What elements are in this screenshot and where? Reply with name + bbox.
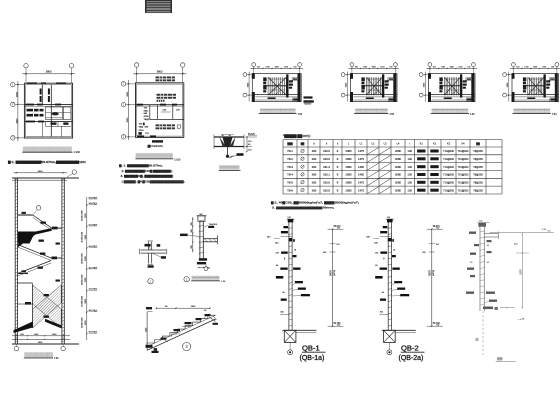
plan 2: 机房顶层配筋平面图 xyxy=(121,63,186,148)
inner bottom wall line xyxy=(429,94,476,96)
svg-text:2: 2 xyxy=(186,277,188,281)
circled dot xyxy=(288,350,293,355)
svg-text:▓: ▓ xyxy=(143,122,145,125)
svg-text:1475: 1475 xyxy=(358,157,364,161)
X flight diagonals xyxy=(444,77,460,95)
svg-text:10: 10 xyxy=(470,262,473,264)
svg-text:100: 100 xyxy=(408,181,413,185)
svg-text:TB-1: TB-1 xyxy=(287,149,293,153)
top elevation line xyxy=(490,231,555,233)
soffit lines xyxy=(147,319,216,350)
arrows xyxy=(446,78,459,80)
bottom labels xyxy=(199,258,207,261)
X flight diagonals xyxy=(528,77,544,95)
right dim line xyxy=(332,229,334,326)
left wall black bottom xyxy=(512,92,515,102)
black diagonal inside hatch xyxy=(45,319,61,328)
center box with oval xyxy=(46,107,63,120)
left wall black top xyxy=(252,73,255,79)
svg-text:2080: 2080 xyxy=(395,173,401,177)
svg-text:▓: 1. ▓▓▓▓▓▓▓▓▓56.670m;: ▓: 1. ▓▓▓▓▓▓▓▓▓56.670m; xyxy=(119,165,163,168)
lower labels xyxy=(466,292,474,294)
left axis bubbles xyxy=(121,82,125,86)
bottom elevation xyxy=(436,325,439,327)
outer walls xyxy=(136,83,184,138)
treads xyxy=(527,77,529,95)
inner bottom wall line xyxy=(512,94,559,96)
left wall black bottom xyxy=(350,92,353,102)
mid-zone horizontal xyxy=(150,118,184,120)
interior vertical wall b (full height) xyxy=(50,85,52,137)
left dim line xyxy=(128,80,130,140)
outer rect xyxy=(429,74,476,102)
lower-zone verticals xyxy=(41,122,43,137)
detail 2 cut symbol circle xyxy=(204,267,208,271)
svg-text:t: t xyxy=(409,143,410,146)
svg-text:120: 120 xyxy=(287,217,291,219)
svg-text:600: 600 xyxy=(514,244,518,246)
hatched flights X zone xyxy=(33,285,62,328)
mid dim ticks xyxy=(429,243,435,245)
svg-text:T10@200: T10@200 xyxy=(458,189,469,192)
svg-text:T8@200: T8@200 xyxy=(209,224,218,226)
left axis bubbles xyxy=(341,73,345,77)
stair plan detail 4: 十八层楼梯详图 xyxy=(503,63,560,102)
wall ties xyxy=(199,220,204,221)
lower-zone center text block xyxy=(156,124,176,126)
left label blobs xyxy=(263,77,266,81)
svg-text:2600: 2600 xyxy=(127,91,129,97)
slab tee xyxy=(203,238,217,240)
svg-text:340: 340 xyxy=(366,237,370,239)
right wall black bar xyxy=(393,73,396,102)
svg-text:3: 3 xyxy=(12,138,14,140)
svg-text:3. ▓▓▓▓▓▓X▓, ▓▓▓▓▓▓▓▓▓▓▓▓;: 3. ▓▓▓▓▓▓X▓, ▓▓▓▓▓▓▓▓▓▓▓▓; xyxy=(121,175,174,178)
svg-text:240: 240 xyxy=(374,242,378,244)
svg-text:8: 8 xyxy=(337,157,339,161)
top cap xyxy=(478,223,486,227)
footing X box xyxy=(284,330,296,342)
detail 2 女儿墙大样 parapet xyxy=(180,214,218,269)
svg-text:260: 260 xyxy=(312,173,317,177)
svg-text:K2: K2 xyxy=(433,143,437,146)
upper annotations xyxy=(283,226,288,228)
top dim line + ticks xyxy=(349,67,400,69)
svg-text:2080: 2080 xyxy=(395,181,401,185)
dim line 3800 xyxy=(133,73,187,75)
svg-text:260: 260 xyxy=(312,149,317,153)
svg-text:1:100: 1:100 xyxy=(174,158,181,161)
mid landing line xyxy=(523,85,543,87)
bottom wall dashes xyxy=(137,135,144,137)
svg-text:1:50: 1:50 xyxy=(390,114,395,116)
svg-text:120: 120 xyxy=(275,252,279,254)
bottom-left node xyxy=(146,345,153,348)
svg-text:1/4: 1/4 xyxy=(165,306,169,308)
svg-text:▓:1. 40▓C30, ▓▓6000(kg/m)²x7,: ▓:1. 40▓C30, ▓▓6000(kg/m)²x7, ▓▓▓▓3500(k… xyxy=(271,200,359,204)
leader + label xyxy=(231,156,238,157)
svg-text:1900: 1900 xyxy=(449,67,453,69)
svg-text:100: 100 xyxy=(408,173,413,177)
end ticks xyxy=(139,249,141,255)
svg-text:11x300=3300: 11x300=3300 xyxy=(81,275,83,286)
X flight diagonals xyxy=(268,77,286,95)
mid annotations xyxy=(380,252,387,254)
plan 1: 机房顶层结构平面图 xyxy=(11,63,75,141)
top axis bubbles xyxy=(350,63,354,67)
svg-text:100: 100 xyxy=(408,188,413,192)
svg-text:T8@250: T8@250 xyxy=(473,174,483,177)
svg-text:K1: K1 xyxy=(420,143,424,146)
detail 3 number bubble xyxy=(183,342,191,350)
left label row 2 xyxy=(27,114,34,117)
svg-text:240: 240 xyxy=(144,112,148,115)
svg-text:8: 8 xyxy=(337,165,339,169)
top-right label box xyxy=(292,78,298,81)
interior vertical wall a xyxy=(41,85,43,106)
svg-text:▓: ▓ xyxy=(392,239,394,242)
svg-text:L2: L2 xyxy=(372,143,375,146)
svg-text:L: L xyxy=(348,143,350,146)
svg-text:60: 60 xyxy=(375,265,378,267)
svg-text:11x300=3300: 11x300=3300 xyxy=(81,318,83,329)
svg-text:8: 8 xyxy=(337,181,339,185)
top-right label box xyxy=(388,78,394,81)
left annotations xyxy=(469,232,476,234)
left axis bubbles xyxy=(11,83,15,87)
lower horizontal wall xyxy=(24,121,72,123)
right dim line xyxy=(431,229,433,326)
right wall xyxy=(61,178,63,345)
svg-text:(QB-1a): (QB-1a) xyxy=(300,355,325,362)
svg-text:1:50: 1:50 xyxy=(470,114,475,116)
axis bubbles top xyxy=(134,63,138,67)
svg-text:5670: 5670 xyxy=(429,270,432,276)
svg-text:240: 240 xyxy=(275,242,279,244)
left label blob xyxy=(180,234,188,237)
axis bubble top-right xyxy=(69,63,73,67)
slab bottom line xyxy=(214,146,244,148)
svg-text:T8@250: T8@250 xyxy=(473,166,483,169)
mid landing line xyxy=(362,85,382,87)
mid annotations xyxy=(281,252,288,254)
svg-text:▓▓: ▓▓ xyxy=(476,337,479,341)
svg-text:1: 1 xyxy=(123,84,125,86)
svg-text:▒▒▒▒▒: ▒▒▒▒▒ xyxy=(24,352,53,359)
outer walls xyxy=(24,83,72,138)
svg-text:50.700: 50.700 xyxy=(433,323,441,325)
top dim xyxy=(156,307,209,309)
hook ball xyxy=(226,155,229,158)
inner bottom wall line xyxy=(351,94,398,96)
svg-text:T10@200: T10@200 xyxy=(443,158,454,161)
left label row 1 xyxy=(27,109,34,112)
svg-text:TB-5: TB-5 xyxy=(287,181,293,185)
top dim line + ticks xyxy=(427,67,478,69)
mid-zone verticals xyxy=(149,105,151,120)
svg-text:1900: 1900 xyxy=(371,67,375,69)
svg-text:1230: 1230 xyxy=(458,67,462,69)
stepped profile xyxy=(147,315,215,346)
svg-text:≈ 4.75: ≈ 4.75 xyxy=(518,318,525,322)
svg-text:T8@200: T8@200 xyxy=(304,104,313,106)
svg-text:2. ▓▓▓▓▓▓▓▓▓120▓(▓▓▓▓▓▓▓▓);: 2. ▓▓▓▓▓▓▓▓▓120▓(▓▓▓▓▓▓▓▓); xyxy=(122,170,173,173)
landing labels xyxy=(22,212,26,214)
svg-text:260: 260 xyxy=(312,188,317,192)
svg-text:▓▓: ▓▓ xyxy=(495,307,499,310)
detail 1 number bubble xyxy=(148,279,153,284)
svg-text:5170: 5170 xyxy=(521,269,523,275)
svg-text:2: 2 xyxy=(12,104,14,106)
right wall black bar xyxy=(298,73,301,102)
svg-text:2080: 2080 xyxy=(395,149,401,153)
center rebar text block upper xyxy=(157,94,177,96)
left axis bubbles xyxy=(419,73,423,77)
top dim line + ticks xyxy=(510,67,560,69)
flight 4 thin xyxy=(18,261,52,274)
parapet cap xyxy=(198,216,205,222)
svg-text:T10@200: T10@200 xyxy=(443,150,454,153)
hook detail 吊钩 slab top line xyxy=(214,134,257,158)
svg-text:56.670: 56.670 xyxy=(334,226,342,228)
detail1 right annotations xyxy=(304,96,313,98)
right dim line xyxy=(521,234,523,308)
svg-text:300: 300 xyxy=(422,252,425,254)
svg-text:T10@200: T10@200 xyxy=(458,166,469,169)
svg-text:3: 3 xyxy=(185,344,188,349)
roof slab xyxy=(12,177,79,179)
bottom elevation xyxy=(337,325,340,327)
svg-text:▒▒▒▒▒▒▒▒▒: ▒▒▒▒▒▒▒▒▒ xyxy=(23,146,72,153)
top axis bubbles xyxy=(252,63,256,67)
svg-text:(5970): (5970) xyxy=(433,270,435,276)
detail 1 wall junction cross xyxy=(140,241,167,268)
bottom-right tag box xyxy=(466,98,473,101)
far-right wall detail (faded) xyxy=(466,221,554,362)
left label blobs xyxy=(523,77,526,81)
detail 2 number bubble xyxy=(184,277,189,282)
svg-text:3800: 3800 xyxy=(38,342,43,344)
inner black wall bar at tread right xyxy=(382,74,384,97)
ties xyxy=(288,221,292,222)
svg-text:150: 150 xyxy=(436,244,439,246)
svg-text:2080: 2080 xyxy=(346,165,352,169)
svg-text:T10@200: T10@200 xyxy=(443,174,454,177)
svg-text:T10@200: T10@200 xyxy=(458,182,469,185)
lower leader annotations xyxy=(295,281,303,283)
right label blobs xyxy=(463,80,467,82)
right label blobs xyxy=(385,80,389,82)
top elevation xyxy=(436,228,439,230)
inner bottom wall line xyxy=(252,94,301,96)
svg-text:1230: 1230 xyxy=(524,67,528,69)
svg-text:1475: 1475 xyxy=(358,149,364,153)
svg-text:100: 100 xyxy=(408,157,413,161)
svg-text:▓▓: ▓▓ xyxy=(476,143,480,146)
svg-text:2080: 2080 xyxy=(395,157,401,161)
svg-text:1230: 1230 xyxy=(380,67,384,69)
svg-text:120: 120 xyxy=(248,141,252,143)
stair plan detail 3: 标准层楼梯详图 xyxy=(419,63,477,102)
svg-text:(QB-2a): (QB-2a) xyxy=(399,355,424,362)
svg-text:11x300=3300: 11x300=3300 xyxy=(81,210,83,221)
treads xyxy=(365,77,367,95)
svg-text:200: 200 xyxy=(207,267,211,269)
bottom strip center blob xyxy=(444,98,452,100)
left axis bubbles xyxy=(243,73,247,77)
ties xyxy=(479,225,485,226)
svg-text:150: 150 xyxy=(467,67,470,69)
right end hooks xyxy=(210,317,216,322)
ties xyxy=(388,221,392,222)
svg-text:▓▓: ▓▓ xyxy=(301,143,305,146)
table 梯段配筋表 grid and data xyxy=(283,140,502,194)
svg-text:56.670: 56.670 xyxy=(433,226,441,228)
strip boxes below xyxy=(46,125,71,127)
svg-text:T8@2: T8@2 xyxy=(144,119,151,121)
svg-text:( ▓▓▓▓▓: ▓K▓C8)▓▓▓▓▓▓▓▓▓▓▓▓▓▓;: ( ▓▓▓▓▓: ▓K▓C8)▓▓▓▓▓▓▓▓▓▓▓▓▓▓; xyxy=(122,179,185,183)
wall tie ticks xyxy=(15,179,18,181)
svg-text:340: 340 xyxy=(267,237,271,239)
left dim line xyxy=(17,81,19,141)
inner black wall bar at tread right xyxy=(460,74,462,97)
svg-text:1900: 1900 xyxy=(274,67,278,69)
embedded hook dark shape xyxy=(223,137,233,147)
left axis bubbles xyxy=(503,73,507,77)
svg-text:300: 300 xyxy=(280,312,284,314)
svg-text:2080: 2080 xyxy=(346,149,352,153)
left wall black top xyxy=(350,73,353,79)
footing X box xyxy=(384,330,396,342)
arrows xyxy=(368,78,381,80)
inner black wall bar at tread right xyxy=(544,74,546,97)
svg-text:T10@200: T10@200 xyxy=(458,150,469,153)
svg-text:8: 8 xyxy=(337,173,339,177)
svg-text:TB-4: TB-4 xyxy=(287,173,293,177)
svg-text:QB-1: QB-1 xyxy=(302,344,320,353)
svg-text:1:50: 1:50 xyxy=(298,114,303,116)
svg-text:181.3: 181.3 xyxy=(323,165,330,169)
svg-text:▓▓TZ1(240x240): ▓▓TZ1(240x240) xyxy=(148,145,163,148)
svg-text:14: 14 xyxy=(487,245,490,247)
svg-text:1475: 1475 xyxy=(358,188,364,192)
top axis bubbles xyxy=(428,63,432,67)
axis leaders xyxy=(25,68,27,83)
svg-text:1900: 1900 xyxy=(533,67,537,69)
right label blobs xyxy=(546,80,550,82)
left wall black bottom xyxy=(252,92,255,102)
svg-text:11x300=3300: 11x300=3300 xyxy=(81,232,83,243)
svg-text:14: 14 xyxy=(294,250,297,252)
axis bubble top-left xyxy=(24,63,28,67)
svg-text:TB-6: TB-6 xyxy=(287,188,293,192)
svg-text:100: 100 xyxy=(408,149,413,153)
treads xyxy=(267,77,269,95)
lower-zone right small box xyxy=(177,125,180,128)
svg-text:1.25: 1.25 xyxy=(542,229,547,231)
vertical rebar label bars xyxy=(40,89,42,95)
right wall black bar xyxy=(471,73,474,102)
svg-text:3800: 3800 xyxy=(46,70,52,74)
svg-text:2600: 2600 xyxy=(191,306,196,308)
left wall black bottom xyxy=(428,92,431,102)
svg-text:1:25: 1:25 xyxy=(221,281,226,283)
svg-text:2. ▓▓▓▓▓▓▓▓▓▓▓▓▓▓▓▓▓25mm;: 2. ▓▓▓▓▓▓▓▓▓▓▓▓▓▓▓▓▓25mm; xyxy=(272,205,334,209)
svg-text:1450: 1450 xyxy=(358,165,364,169)
svg-text:2080: 2080 xyxy=(395,165,401,169)
wall verticals xyxy=(199,221,201,259)
svg-text:260: 260 xyxy=(312,157,317,161)
left landing wedge black xyxy=(18,232,36,244)
svg-text:2T14: 2T14 xyxy=(139,129,145,132)
svg-text:163.1: 163.1 xyxy=(323,173,330,177)
faint note block at sheet top xyxy=(145,0,172,13)
svg-text:2080: 2080 xyxy=(346,188,352,192)
svg-text:▓: ▓ xyxy=(293,239,295,242)
right annotations xyxy=(487,240,492,242)
svg-text:2: 2 xyxy=(123,105,125,107)
wall verticals xyxy=(288,219,290,330)
svg-text:2600: 2600 xyxy=(16,91,18,97)
svg-text:200: 200 xyxy=(145,127,149,129)
side break lines xyxy=(213,135,215,150)
bottom-right tag box xyxy=(293,98,300,101)
stair plan detail 2: 一层楼梯详图 xyxy=(341,63,399,102)
svg-text:1:100: 1:100 xyxy=(74,151,81,154)
bottom-right tag box xyxy=(388,98,395,101)
svg-text:(5970): (5970) xyxy=(334,270,336,276)
svg-text:163.6: 163.6 xyxy=(323,157,330,161)
top axis bubbles xyxy=(512,63,516,67)
left dim xyxy=(192,217,194,253)
rebar callouts xyxy=(161,338,167,340)
left edge xyxy=(146,312,148,351)
stair section 楼梯剖面图 xyxy=(12,170,98,351)
svg-text:8: 8 xyxy=(337,188,339,192)
svg-text:100: 100 xyxy=(408,165,413,169)
right vertical dimension string xyxy=(86,197,88,340)
landing lines at hatch xyxy=(18,282,33,284)
svg-text:45: 45 xyxy=(382,292,385,294)
svg-text:190: 190 xyxy=(176,110,180,112)
svg-text:1475: 1475 xyxy=(358,181,364,185)
svg-text:300: 300 xyxy=(323,252,326,254)
svg-text:1450: 1450 xyxy=(358,173,364,177)
svg-text:3: 3 xyxy=(123,137,125,139)
svg-text:TB-2: TB-2 xyxy=(287,157,293,161)
svg-text:T8@250: T8@250 xyxy=(473,189,483,192)
svg-text:150: 150 xyxy=(355,67,358,69)
top-right label box xyxy=(466,78,472,81)
labels xyxy=(145,244,151,247)
svg-text:120: 120 xyxy=(375,252,379,254)
bottom dims xyxy=(12,335,70,337)
svg-text:150: 150 xyxy=(257,67,260,69)
bottom-right tag box xyxy=(550,98,557,101)
X flight diagonals xyxy=(366,77,382,95)
svg-text:T8@250: T8@250 xyxy=(473,150,483,153)
right label blobs xyxy=(289,80,293,82)
svg-text:T10@200: T10@200 xyxy=(458,174,469,177)
svg-text:T8@250: T8@250 xyxy=(473,158,483,161)
svg-text:T10@200: T10@200 xyxy=(443,189,454,192)
lower leader annotations xyxy=(394,281,402,283)
svg-text:14: 14 xyxy=(393,250,396,252)
svg-text:150: 150 xyxy=(433,67,436,69)
top cap xyxy=(387,219,393,222)
svg-text:260: 260 xyxy=(312,165,317,169)
hook curve xyxy=(228,147,234,158)
